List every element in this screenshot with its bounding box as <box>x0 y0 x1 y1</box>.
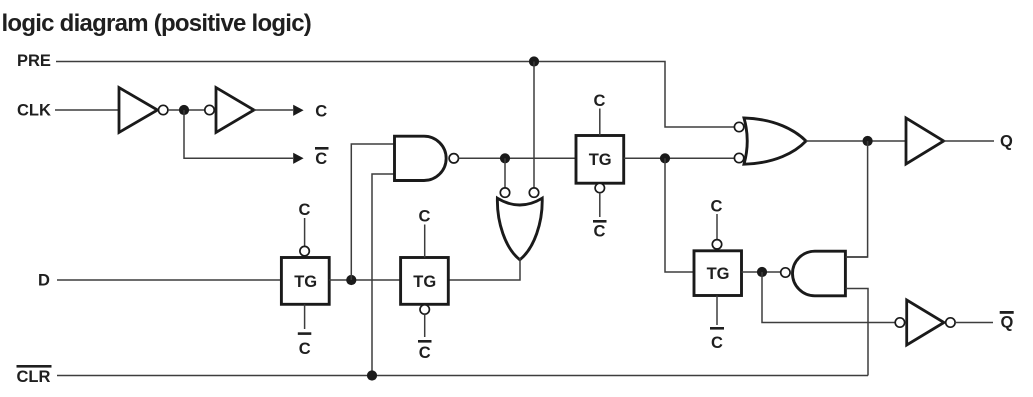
bubble inverter 2 input <box>205 105 214 114</box>
wire TG1 bottom control <box>304 304 306 329</box>
wire TG4 node down to Q-bar buffer <box>762 272 895 323</box>
junction dot TG3 output / TG4 branch <box>660 153 670 163</box>
transmission gate TG3 <box>576 136 624 184</box>
inverter 2 (C buffer) <box>216 88 254 133</box>
wire C control to TG1 bubble <box>304 218 306 246</box>
svg-text:C: C <box>711 198 723 216</box>
bubble TG2 bottom control <box>420 305 429 314</box>
svg-text:CLR: CLR <box>17 368 51 386</box>
svg-text:PRE: PRE <box>17 52 51 70</box>
overline of C-bar label <box>315 147 329 150</box>
buffer to Q-bar output <box>907 300 944 345</box>
wire between inverter bubbles <box>168 109 205 111</box>
svg-text:C: C <box>419 208 431 226</box>
wire CLK to inverter 1 <box>55 109 119 111</box>
svg-text:TG: TG <box>294 273 317 291</box>
bubble TG1 top control <box>300 246 309 255</box>
junction dot CLR / NAND branch <box>367 370 377 380</box>
wire AND top input to Q node drop <box>846 256 868 258</box>
junction dot TG1 output / NAND feedback <box>346 275 356 285</box>
arrowhead C <box>293 105 303 116</box>
wire OR output to Q buffer <box>806 140 906 142</box>
bubble NAND output <box>449 154 458 163</box>
transmission gate TG1 <box>281 258 329 305</box>
svg-text:C: C <box>419 344 431 362</box>
wire TG1 node up to NAND input 1 <box>351 144 394 280</box>
bubble Q-bar buffer input <box>895 318 904 327</box>
wire TG4 output to AND output bubble <box>742 271 781 273</box>
wire TG4 bottom control <box>716 296 718 326</box>
svg-text:C: C <box>299 340 311 358</box>
wire AND bottom input down to CLR <box>846 289 868 376</box>
transmission gate TG2 <box>401 258 449 305</box>
svg-text:TG: TG <box>707 265 730 283</box>
buffer to Q output <box>906 118 944 164</box>
overline of C-bar below TG3 <box>593 220 607 223</box>
wire C control to TG4 bubble <box>716 214 718 240</box>
junction dot PRE / NOR-right-input branch <box>529 56 539 66</box>
svg-text:CLK: CLK <box>17 102 51 120</box>
wire TG1 output to TG2 <box>329 279 400 281</box>
overline of C-bar below TG4 <box>710 327 724 330</box>
AND gate (slave latch, pointing left) <box>793 251 846 296</box>
net label CLR with overline <box>17 365 52 368</box>
svg-text:Q: Q <box>1000 133 1013 151</box>
wire TG3 output to OR bottom input <box>624 157 735 159</box>
OR gate (output stage, bubbled inputs) <box>744 118 806 164</box>
transmission gate TG4 <box>694 251 742 296</box>
wire buffer to Q label <box>944 140 994 142</box>
wire TG3 bottom control <box>599 193 601 217</box>
bubble Q-bar buffer output <box>946 318 955 327</box>
bubble TG3 bottom control <box>595 183 604 192</box>
wire down to NOR left input bubble <box>504 158 506 188</box>
wire C-bar branch down and right to arrow <box>184 110 293 158</box>
svg-text:C: C <box>711 334 723 352</box>
svg-text:TG: TG <box>589 151 612 169</box>
svg-text:C: C <box>594 92 606 110</box>
arrowhead C-bar <box>293 153 303 164</box>
wire PRE branch down to NOR right input bubble <box>533 62 535 188</box>
wire C control to TG3 top <box>599 109 601 136</box>
junction dot C-bar branch <box>179 105 189 115</box>
wire down from TG3 output node to TG4 input <box>665 158 694 272</box>
wire D to TG1 <box>57 279 281 281</box>
inverter 1 (CLK buffer) <box>119 88 158 133</box>
overline of C-bar below TG2 <box>418 340 432 343</box>
wire CLR up to NAND input 2 <box>372 174 394 376</box>
wire TG2 bottom control <box>424 314 426 337</box>
bubble inverter 1 output <box>159 105 168 114</box>
svg-text:Q: Q <box>1001 314 1014 332</box>
bubble OR bottom input <box>734 153 743 162</box>
svg-text:D: D <box>38 272 50 290</box>
bubble NOR right input <box>529 188 538 197</box>
svg-text:logic diagram (positive logic): logic diagram (positive logic) <box>2 10 312 37</box>
svg-text:C: C <box>299 201 311 219</box>
junction dot TG4 output / Q-bar branch <box>757 267 767 277</box>
junction dot Q node <box>863 136 873 146</box>
svg-text:C: C <box>315 150 327 168</box>
wire inverter 2 output to C arrow <box>254 109 293 111</box>
bubble TG4 top control <box>712 240 721 249</box>
junction dot NAND output / NOR-left-input <box>500 153 510 163</box>
wire NOR output down-left to TG2 output node <box>448 258 520 280</box>
svg-text:TG: TG <box>413 273 436 291</box>
bubble AND output (points left) <box>781 268 790 277</box>
wire PRE horizontal then down to OR top input <box>56 62 734 128</box>
bubble OR top input <box>734 122 743 131</box>
wire CLR <box>57 375 868 377</box>
svg-text:C: C <box>315 103 327 121</box>
svg-text:C: C <box>594 223 606 241</box>
NOR gate (vertical, pointing down) <box>497 198 542 260</box>
wire Q node down to AND top input <box>846 141 868 257</box>
wire to Q-bar label <box>955 322 993 324</box>
bubble NOR left input <box>500 188 509 197</box>
wire NAND output to TG3 <box>459 157 577 159</box>
overline of C-bar below TG1 <box>298 332 312 335</box>
NAND gate (master latch) <box>395 136 447 180</box>
overline of Q-bar label <box>1000 311 1014 314</box>
wire C control to TG2 top <box>424 225 426 258</box>
